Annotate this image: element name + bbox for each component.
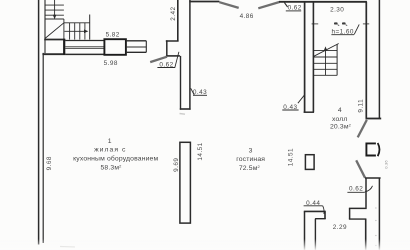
svg-text:14.51: 14.51: [197, 142, 204, 160]
svg-text:5.98: 5.98: [104, 60, 118, 67]
svg-text:9.69: 9.69: [173, 158, 180, 172]
svg-text:2.30: 2.30: [330, 7, 344, 14]
upper pier left edge: [180, 56, 182, 110]
stairs room2 slope line: [314, 44, 339, 57]
shaft pier right line: [312, 2, 314, 113]
svg-text:0.62: 0.62: [349, 186, 363, 193]
window glazing lines left span: [65, 46, 104, 48]
svg-text:9.11: 9.11: [357, 99, 364, 113]
dim 0.44 underline: [304, 205, 323, 207]
svg-text:1: 1: [108, 138, 112, 145]
svg-text:0.43: 0.43: [193, 89, 207, 96]
svg-text:кухонным оборудованием: кухонным оборудованием: [73, 155, 158, 163]
stair flight tread v3: [79, 23, 81, 40]
lower pier: [180, 142, 191, 223]
stair flight left edge: [63, 19, 65, 40]
svg-text:гостиная: гостиная: [236, 156, 265, 163]
stair landing top edge: [45, 18, 64, 20]
svg-text:0.62: 0.62: [288, 5, 302, 12]
h160 left tick: [312, 23, 319, 25]
dim 0.62 mid underline: [157, 67, 175, 69]
svg-text:4.86: 4.86: [240, 13, 254, 20]
svg-text:3: 3: [249, 147, 253, 154]
window glazing line right span: [126, 46, 146, 48]
svg-text:4: 4: [338, 107, 342, 114]
dim 0.62 mid leader: [175, 52, 179, 68]
svg-text:72.5м2: 72.5м2: [239, 164, 261, 172]
svg-text:14.51: 14.51: [288, 148, 295, 166]
wall A lower vertical: [166, 40, 168, 56]
wall jog horizontal upper: [349, 207, 367, 209]
svg-text:2.42: 2.42: [170, 6, 177, 20]
wall below jog: [365, 219, 367, 250]
stairs room2 treads: [313, 49, 337, 51]
stair tread t2: [45, 9, 64, 11]
wall A vertical top: [177, 0, 179, 41]
window sill bottom left span: [65, 53, 104, 55]
svg-text:0.36: 0.36: [384, 160, 389, 169]
gamma wall top: [304, 210, 326, 212]
shaft top wall: [365, 177, 381, 179]
h160 underline: [331, 34, 354, 36]
h160 leader slash: [354, 24, 359, 34]
faint dotted line right: [375, 207, 376, 246]
stair flight top edge: [64, 22, 90, 24]
stair flight tread v4: [84, 23, 86, 40]
svg-text:0.62: 0.62: [159, 61, 173, 68]
door leaf room1: [150, 57, 167, 62]
svg-text:холл: холл: [332, 116, 348, 123]
gamma wall left vertical: [304, 211, 306, 250]
dim 0.43 n1 underline: [193, 94, 207, 96]
h160 right tick: [363, 23, 369, 25]
building right wall bottom: [378, 178, 380, 250]
dim 0.62 br underline: [347, 191, 364, 193]
lower door leaf: [356, 160, 365, 177]
dim 0.43 n1 leader: [191, 88, 195, 95]
h160 symbol b: [342, 22, 346, 24]
stair landing diagonal: [45, 23, 64, 39]
building right wall top: [378, 0, 380, 119]
stairs room2 up arrow: [324, 46, 328, 75]
dim 0.43 n2 leader: [298, 95, 304, 103]
door mark top: [284, 3, 287, 7]
svg-text:жилая с: жилая с: [94, 146, 126, 153]
hall door leaf: [358, 120, 367, 137]
shaft left wall: [365, 178, 367, 208]
wall under landing: [44, 39, 65, 41]
vent bracket arc: [378, 143, 380, 156]
svg-text:0.43: 0.43: [283, 104, 297, 111]
svg-text:58.3м2: 58.3м2: [100, 164, 122, 172]
stair down arrow: [53, 0, 57, 19]
small pier hall: [305, 155, 314, 170]
gamma wall inner vertical: [314, 219, 316, 250]
faint smudge under pier: [180, 113, 186, 116]
wall left outer: [38, 0, 40, 245]
room2 right wall: [365, 2, 367, 119]
stair tread t1: [45, 4, 64, 6]
stair flight tread v2: [74, 23, 76, 40]
wall top segment 1: [189, 1, 219, 3]
door leaf top left: [219, 2, 238, 8]
wall jog vertical: [349, 208, 351, 219]
vent bracket square: [366, 143, 376, 155]
window band end cap: [145, 41, 147, 53]
wall left inner: [42, 53, 44, 243]
dim 0.43 n2 underline: [282, 109, 298, 111]
wall top segment 2: [279, 1, 367, 3]
gamma wall arm bottom: [315, 218, 326, 220]
gamma wall right edge: [324, 211, 326, 219]
faint smudge bottom left: [60, 246, 75, 249]
wall B vertical: [189, 0, 191, 110]
window sill top left span: [65, 40, 104, 42]
wall room1 top: [42, 53, 65, 55]
wall jog horizontal lower: [349, 218, 367, 220]
svg-text:2.29: 2.29: [333, 224, 347, 231]
stairs room2 right edge: [336, 44, 338, 75]
svg-text:9.68: 9.68: [46, 156, 53, 170]
shaft pier bottom cap: [304, 111, 314, 113]
stair left edge: [44, 0, 46, 53]
stair right arrow: [65, 30, 89, 34]
dim 0.44 leader: [323, 206, 324, 214]
stair tread t3: [45, 14, 64, 16]
upper pier bottom cap: [180, 108, 191, 110]
svg-text:h=1.60: h=1.60: [331, 29, 353, 36]
svg-text:5.82: 5.82: [106, 32, 120, 39]
dim 0.62 top underline: [286, 10, 301, 12]
stair flight right edge: [89, 15, 91, 40]
door jamb cap: [166, 55, 180, 57]
svg-text:0.44: 0.44: [306, 200, 320, 207]
stair flight tread v1: [69, 23, 71, 40]
hall corner cap: [366, 118, 382, 120]
window sill bottom right span: [126, 51, 146, 53]
window box pier: [104, 39, 126, 55]
dim 0.62 br leader: [365, 186, 373, 192]
h160 symbol a: [334, 22, 338, 24]
shaft pier left line: [304, 2, 306, 113]
wall pier window left: [63, 39, 65, 55]
wall A horizontal: [166, 40, 179, 42]
window sill top right span: [126, 40, 146, 42]
door leaf top right: [258, 2, 279, 8]
svg-text:20.3м2: 20.3м2: [330, 122, 352, 130]
